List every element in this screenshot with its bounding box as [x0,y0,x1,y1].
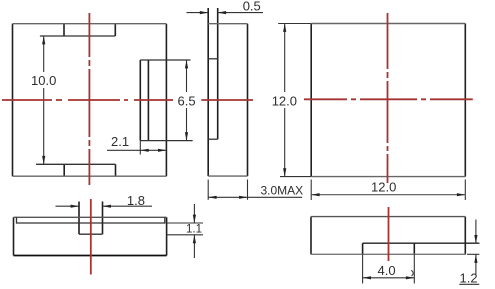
svg-text:3.0MAX: 3.0MAX [261,184,304,198]
svg-text:1.2: 1.2 [460,271,478,286]
svg-text:2.1: 2.1 [111,134,129,149]
svg-text:0.5: 0.5 [243,0,261,14]
svg-text:1.8: 1.8 [127,193,145,208]
svg-text:6.5: 6.5 [178,94,196,109]
svg-text:10.0: 10.0 [31,73,56,88]
svg-text:4.0: 4.0 [378,263,396,278]
svg-text:12.0: 12.0 [371,179,396,194]
svg-text:1.1: 1.1 [186,223,202,235]
svg-text:12.0: 12.0 [272,94,297,109]
